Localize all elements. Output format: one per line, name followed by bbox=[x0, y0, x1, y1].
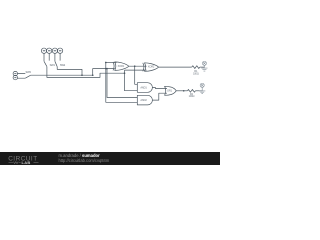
wire XOR1 output branch down to AND1 input 1 bbox=[135, 66, 138, 84]
wire XOR1 output to XOR2 input 1 bbox=[129, 65, 147, 67]
svg-text:XOR1: XOR1 bbox=[118, 64, 125, 68]
switch SW3 throw posts bbox=[18, 74, 26, 79]
wire riser to XOR1 input 1 and down to AND2 input 2 bbox=[106, 63, 138, 103]
switch SW1 throw circle 1 bbox=[41, 48, 46, 53]
switch SW3 lever bbox=[25, 75, 30, 78]
ground under lamp L2 bbox=[199, 87, 205, 93]
XOR1 back arc bbox=[113, 62, 114, 71]
svg-text:XOR2: XOR2 bbox=[148, 64, 155, 68]
XOR2 back arc bbox=[143, 63, 144, 72]
switch SW2 throw circle 1 bbox=[52, 48, 57, 53]
marks inside switch circles bbox=[14, 50, 61, 78]
svg-text:AND1: AND1 bbox=[140, 85, 147, 89]
switch SW3 throw circle 1 bbox=[13, 71, 17, 75]
switch SW2 lever bbox=[55, 61, 57, 66]
op AND1 gate body bbox=[137, 83, 152, 93]
svg-text:SW2: SW2 bbox=[60, 63, 66, 67]
svg-text:LAB: LAB bbox=[22, 160, 31, 165]
op XOR2 gate body bbox=[145, 63, 159, 72]
wire AND2 output to OR1 input 2 bbox=[152, 93, 167, 100]
svg-text:100Ω: 100Ω bbox=[193, 72, 199, 76]
wire net Cin: SW3 common right, rise at x92.7 to XOR1 input 2 bbox=[31, 69, 115, 76]
wire riser at x124.5 to XOR2 input 2 bbox=[125, 69, 147, 71]
ground under lamp L1 bbox=[201, 65, 207, 71]
resistor R2 zigzag bbox=[187, 89, 195, 92]
op AND2 gate body bbox=[137, 95, 152, 105]
wire AND1 output to OR1 input 1 bbox=[152, 88, 167, 89]
switch SW2 throw posts bbox=[55, 53, 60, 61]
switch SW1 throw posts bbox=[44, 53, 49, 61]
svg-text:SW3: SW3 bbox=[26, 70, 32, 74]
svg-text:http://circuitlab.com/cvq84m: http://circuitlab.com/cvq84m bbox=[59, 158, 110, 163]
wire XOR2 output (sum) long run right bbox=[159, 66, 192, 68]
svg-text:OR1: OR1 bbox=[167, 89, 173, 93]
op OR1 gate body bbox=[165, 86, 177, 95]
junction dots bbox=[81, 62, 184, 92]
svg-text:100Ω: 100Ω bbox=[189, 94, 195, 98]
wire after R2 bbox=[195, 90, 202, 92]
lamp L1 circle with X bbox=[201, 61, 207, 71]
switch SW1 lever bbox=[44, 61, 47, 66]
lamp L2 circle with X bbox=[199, 83, 205, 93]
wire XOR1 input 1 stub bbox=[106, 62, 117, 64]
switch SW2 throw circle 2 bbox=[57, 48, 62, 53]
resistor R1 zigzag bbox=[192, 66, 200, 69]
watermark bar bbox=[0, 152, 220, 165]
svg-text:SW1: SW1 bbox=[50, 63, 56, 67]
wire after R1 bbox=[200, 66, 204, 68]
wire riser down to AND2 input 1 bbox=[107, 69, 137, 98]
svg-text:AND2: AND2 bbox=[140, 98, 147, 102]
component labels bbox=[118, 64, 199, 102]
switch SW1 throw circle 2 bbox=[47, 48, 52, 53]
switch SW3 throw circle 2 bbox=[13, 75, 17, 79]
op XOR1 gate body bbox=[115, 62, 129, 71]
wire net B: SW2 common down and right, drop at x82 bbox=[57, 67, 82, 76]
wire net A: SW1 common down, right, jog up to bus bbox=[47, 67, 125, 78]
wire riser at x124.5 down to AND1 input 2 bbox=[125, 70, 138, 91]
wire OR1 output (carry) run right bbox=[176, 90, 187, 92]
